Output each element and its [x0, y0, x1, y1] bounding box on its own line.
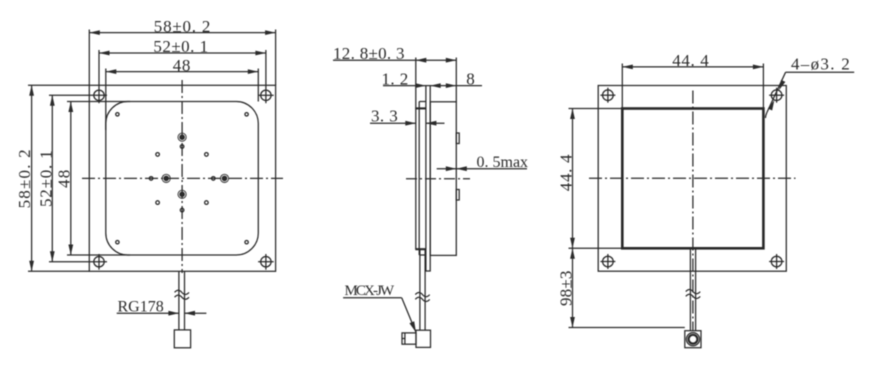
rear hole bottom-right	[769, 254, 784, 269]
MCX connector nose	[402, 333, 416, 344]
centerline horizontal (side)	[406, 178, 470, 180]
svg-text:52±0. 1: 52±0. 1	[153, 37, 208, 56]
patch corner hole bottom-left	[116, 241, 119, 244]
cable (front view)	[179, 271, 185, 330]
feed pins (filled dots)	[162, 133, 229, 198]
svg-text:58±0. 2: 58±0. 2	[154, 17, 211, 36]
connector end (front view)	[174, 330, 190, 348]
svg-text:52±0. 1: 52±0. 1	[36, 150, 55, 207]
dimension 0.5max	[437, 166, 527, 171]
mounting hole top-left	[49, 50, 107, 103]
svg-text:3. 3: 3. 3	[371, 106, 398, 125]
rear hole bottom-left	[600, 254, 615, 269]
centerline vertical (rear)	[692, 91, 694, 332]
connector end view (rear)	[685, 331, 701, 348]
rear hole top-left	[600, 88, 615, 103]
svg-text:98±3: 98±3	[556, 270, 575, 306]
svg-text:1. 2: 1. 2	[382, 69, 409, 88]
housing body (side)	[430, 102, 456, 256]
ceramic element top edge	[415, 107, 426, 109]
mounting hole bottom-right	[258, 254, 274, 270]
dimension 58±0.2 vertical	[28, 85, 89, 271]
rear plate outline	[598, 86, 786, 272]
solder bump lower	[456, 190, 459, 201]
dimension 12.8±0.3	[333, 58, 456, 102]
cable (side view)	[420, 249, 425, 330]
dimension 44.4 vertical (rear)	[569, 109, 623, 249]
patch layer front face	[418, 102, 420, 256]
MCX nose cap line	[404, 333, 406, 344]
dimension 48 vertical	[67, 102, 130, 256]
front plate outline	[89, 85, 275, 271]
mounting hole bottom-left	[49, 254, 107, 270]
centerline vertical (front)	[181, 80, 183, 273]
patch corner hole top-right	[245, 113, 248, 116]
ceramic element front face	[415, 58, 417, 250]
mounting hole top-right	[258, 50, 274, 103]
label 4-ø3.2 with leader	[765, 72, 854, 118]
cable break (rear view)	[686, 290, 700, 299]
patch corner hole top-left	[116, 113, 119, 116]
cable break (side view)	[415, 293, 429, 302]
feed pattern small rings	[149, 145, 215, 212]
dimension 8	[446, 83, 482, 88]
centerline horizontal (rear)	[589, 177, 796, 179]
svg-text:44. 4: 44. 4	[672, 51, 709, 70]
MCX connector body (side)	[416, 330, 431, 347]
ceramic element bottom edge	[415, 248, 426, 250]
svg-text:48: 48	[54, 169, 73, 188]
dimension 98±3 vertical (rear)	[569, 248, 685, 327]
svg-text:MCX-JW: MCX-JW	[345, 283, 396, 299]
svg-text:44. 4: 44. 4	[556, 154, 575, 192]
svg-text:4–ø3. 2: 4–ø3. 2	[791, 55, 851, 74]
solder bump upper	[456, 133, 459, 144]
label RG178 with leader	[117, 311, 207, 316]
dimension 3.3	[370, 121, 445, 126]
svg-text:8: 8	[466, 69, 475, 88]
dimension 1.2	[383, 83, 456, 88]
svg-text:12. 8±0. 3: 12. 8±0. 3	[333, 44, 405, 63]
ceramic back (bold square)	[622, 109, 763, 249]
patch (rounded square)	[106, 102, 258, 256]
dimension 58±0.2 horizontal	[89, 30, 275, 86]
dimension 52±0.1 vertical	[50, 95, 55, 261]
rear hole top-right	[769, 88, 784, 103]
label MCX-JW with leader	[343, 298, 418, 334]
dimension 48 horizontal	[106, 69, 258, 131]
svg-text:48: 48	[173, 56, 191, 75]
patch corner hole bottom-right	[245, 241, 248, 244]
dimension 44.4 horizontal (rear)	[622, 64, 763, 109]
svg-text:RG178: RG178	[118, 299, 164, 316]
dimension 52±0.1 horizontal	[99, 51, 266, 56]
svg-text:58±0. 2: 58±0. 2	[15, 148, 34, 208]
patch layer top edge	[419, 101, 426, 103]
centerline horizontal (front)	[82, 177, 283, 179]
cable break (front view)	[175, 290, 189, 299]
patch layer bottom edge	[419, 254, 426, 256]
cable (rear view)	[690, 248, 695, 330]
metal plate (side)	[426, 86, 430, 271]
MCX nose center line	[402, 338, 405, 340]
svg-text:0. 5max: 0. 5max	[477, 154, 529, 171]
